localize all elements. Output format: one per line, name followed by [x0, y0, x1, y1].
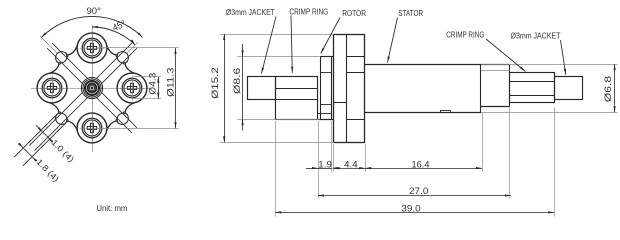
svg-text:ROTOR: ROTOR	[342, 9, 366, 18]
svg-text:Ø11.3: Ø11.3	[166, 68, 176, 97]
left view up-right notch fillets	[107, 45, 135, 73]
dimension dia11.3 line	[174, 48, 176, 128]
dimension 39.0 line	[275, 211, 554, 213]
label stator	[398, 9, 423, 18]
svg-text:STATOR: STATOR	[398, 9, 423, 18]
side view stator jacket	[555, 77, 583, 100]
dimension 4.4 label	[344, 159, 358, 170]
dimension dia4.3 extension lines	[134, 77, 162, 99]
dimension 1.8 line	[18, 143, 37, 162]
extension line crimp right face	[318, 121, 320, 199]
svg-text:Unit: mm: Unit: mm	[96, 203, 127, 213]
dimension dia4.3 label	[148, 73, 158, 95]
dimension dia15.2 line	[223, 34, 225, 142]
dimension 16.4 label	[412, 159, 431, 170]
side view rotor jacket	[248, 77, 276, 100]
left view vertical centerline	[92, 25, 94, 152]
dimension dia15.2 label	[210, 67, 221, 99]
svg-text:1.9: 1.9	[318, 159, 332, 170]
dimension dia6.8 line	[614, 64, 616, 112]
left view lobe circle 3	[37, 73, 67, 103]
left view lobe circle 2	[77, 113, 107, 143]
left view screw boss 1	[80, 36, 105, 61]
label stator jacket	[511, 31, 561, 40]
left view down-right slot	[96, 92, 137, 133]
side view stator nut	[481, 64, 510, 106]
label stator crimp ring	[446, 30, 484, 39]
left view down-left notch fillets	[49, 103, 77, 131]
leader rotor	[321, 18, 340, 54]
leader stator jacket	[561, 40, 567, 75]
left view horizontal centerline	[31, 88, 150, 90]
dimension dia8.6 extension lines	[238, 57, 320, 120]
extension line hub right face	[331, 121, 333, 172]
dimension 90 deg arc	[41, 16, 142, 37]
leader rotor jacket	[262, 17, 277, 74]
dimension dia15.2 extension lines	[220, 35, 334, 143]
dimension 90 deg label	[87, 6, 102, 17]
leader rotor crimp ring	[291, 16, 293, 73]
side view stator crimp ring	[510, 73, 555, 103]
dimension 39.0 label	[401, 204, 420, 215]
side view rotor flange	[334, 34, 365, 142]
dimension 1.9 line	[306, 167, 338, 169]
label rotor	[342, 9, 366, 18]
left view up-left slot	[40, 36, 88, 84]
svg-text:CRIMP RING: CRIMP RING	[289, 8, 328, 17]
dimension 45 deg arc	[92, 26, 135, 45]
left view up-right slot	[96, 42, 138, 84]
side view stator body	[365, 64, 481, 112]
dimension dia4.3 line	[157, 77, 159, 99]
svg-text:16.4: 16.4	[412, 159, 431, 170]
dimension 16.4 line	[365, 167, 482, 169]
dimension 27.0 line	[318, 194, 511, 196]
extension line flange left face	[333, 144, 335, 172]
left view lobe circle 1	[77, 33, 107, 63]
dimension dia11.3 extension lines	[98, 48, 179, 129]
dimension 45 deg label	[111, 19, 128, 34]
left view down-left slot	[14, 92, 88, 166]
dimension 1.0 label	[49, 137, 76, 164]
leader stator crimp ring	[486, 39, 526, 72]
svg-text:27.0: 27.0	[409, 186, 428, 197]
svg-text:Ø15.2: Ø15.2	[210, 67, 221, 99]
left view screw boss 4	[120, 76, 145, 101]
svg-text:39.0: 39.0	[401, 204, 420, 215]
dimension dia8.6 label	[232, 68, 243, 94]
svg-text:Ø4.3: Ø4.3	[148, 73, 158, 95]
leader stator	[388, 18, 398, 63]
side view rotor crimp ring	[275, 77, 317, 120]
extension line nut right face	[509, 108, 511, 199]
left view central hub	[81, 77, 102, 98]
side view rotor hub	[318, 56, 334, 120]
extension line body left face	[275, 121, 277, 217]
left view down-right notch fillets	[107, 103, 135, 131]
svg-text:4.4: 4.4	[344, 159, 358, 170]
dimension dia11.3 label	[166, 68, 176, 97]
left view up-left notch fillets	[49, 45, 77, 73]
dimension dia6.8 extension lines	[481, 65, 618, 113]
extension line body right face	[554, 108, 556, 217]
left view screw boss 3	[40, 76, 65, 101]
label rotor jacket	[226, 8, 275, 17]
label rotor crimp ring	[289, 8, 328, 17]
svg-text:Ø8.6: Ø8.6	[232, 68, 243, 94]
svg-text:90°: 90°	[87, 6, 102, 17]
extension line flange right face	[365, 144, 367, 172]
dimension dia8.6 line	[242, 44, 244, 131]
svg-text:Ø6.8: Ø6.8	[603, 76, 614, 102]
unit note	[96, 203, 127, 213]
dimension 27.0 label	[409, 186, 428, 197]
dimension 1.0 line	[36, 125, 53, 142]
svg-text:CRIMP RING: CRIMP RING	[446, 30, 484, 39]
left view lobe circle 4	[117, 73, 147, 103]
extension line stator right face	[482, 114, 484, 172]
dimension 4.4 line	[334, 167, 366, 169]
dimension 1.9 label	[318, 159, 332, 170]
dimension 1.8 label	[34, 157, 61, 184]
svg-text:Ø3mm JACKET: Ø3mm JACKET	[511, 31, 561, 40]
svg-text:Ø3mm JACKET: Ø3mm JACKET	[226, 8, 275, 17]
dimension dia6.8 label	[603, 76, 614, 102]
left view screw boss 2	[80, 116, 105, 141]
